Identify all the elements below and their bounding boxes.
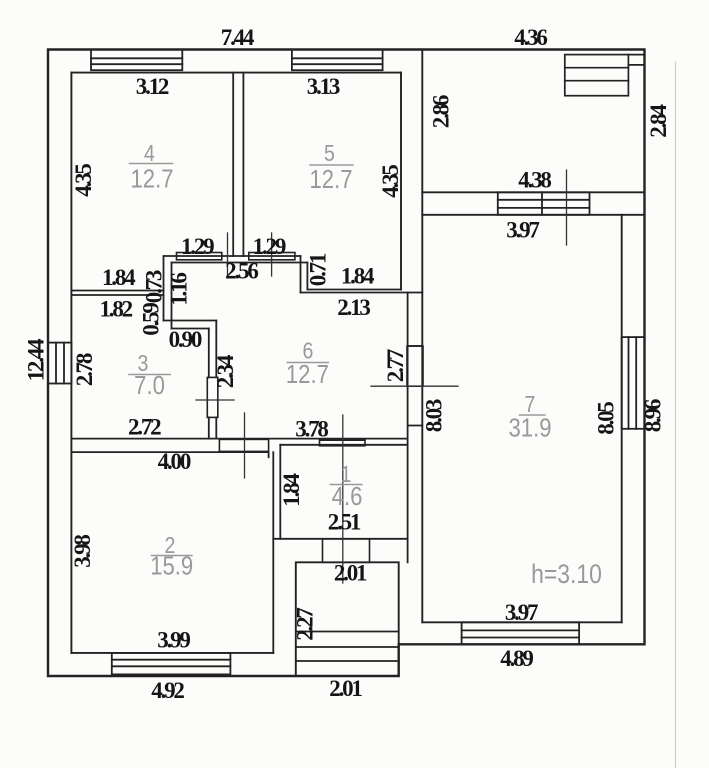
svg-text:0.73: 0.73 xyxy=(141,270,166,303)
svg-text:0.71: 0.71 xyxy=(306,253,331,286)
room 7 right wall inner face xyxy=(621,215,623,623)
window W6 on right wall (room 7) xyxy=(622,337,645,429)
svg-text:4.38: 4.38 xyxy=(518,168,551,193)
partition wall between rooms 2 and 1 xyxy=(273,445,280,653)
window W1 on top wall (room 4) xyxy=(91,50,182,71)
tick for 4.00 door room 2 xyxy=(244,413,246,478)
tick for 1.29 right xyxy=(271,233,273,276)
svg-text:2.34: 2.34 xyxy=(213,354,238,388)
step wall left of hall top wall (0.73) xyxy=(164,256,172,329)
inner face of left exterior wall xyxy=(70,73,72,653)
room 5 number and area 12.7 xyxy=(310,141,353,195)
room 1 top partition inner face xyxy=(280,444,407,446)
svg-text:h=3.10: h=3.10 xyxy=(531,559,602,589)
svg-text:2.01: 2.01 xyxy=(334,561,367,586)
svg-text:4.89: 4.89 xyxy=(500,646,533,671)
hall (room 6) top wall xyxy=(165,256,308,263)
room 7 number and area 31.9 xyxy=(509,392,552,443)
svg-text:12.7: 12.7 xyxy=(131,165,174,194)
svg-text:2.78: 2.78 xyxy=(72,353,97,386)
svg-text:4.6: 4.6 xyxy=(332,482,363,511)
svg-text:4: 4 xyxy=(144,141,155,167)
svg-text:2.72: 2.72 xyxy=(128,415,161,440)
room 6 number and area 12.7 xyxy=(286,338,329,389)
svg-text:3.98: 3.98 xyxy=(70,535,95,568)
svg-text:1.16: 1.16 xyxy=(167,273,192,306)
room 1 bottom exterior wall top face xyxy=(273,538,407,540)
svg-text:4.36: 4.36 xyxy=(514,25,547,50)
window W3 on left wall (room 3) xyxy=(48,343,71,384)
svg-text:3.99: 3.99 xyxy=(157,628,190,653)
terrace bottom wall outer face xyxy=(422,191,644,193)
step wall 0.71 right of hall top wall xyxy=(301,256,308,293)
svg-text:2.01: 2.01 xyxy=(329,676,362,701)
svg-text:7.0: 7.0 xyxy=(134,371,165,400)
svg-text:4.00: 4.00 xyxy=(158,449,191,474)
svg-text:3.97: 3.97 xyxy=(505,600,538,625)
dimension tick lines xyxy=(196,170,567,583)
scan edge artifact right side xyxy=(675,62,677,768)
svg-text:3.78: 3.78 xyxy=(295,417,328,442)
svg-text:2.84: 2.84 xyxy=(646,104,671,138)
door D5 from hall to room 2 xyxy=(219,439,268,451)
room 3 number and area 7.0 xyxy=(129,351,170,401)
tick for 2.34 door room 3 xyxy=(196,399,234,401)
svg-text:12.7: 12.7 xyxy=(310,165,353,194)
vestibule walls xyxy=(296,562,399,676)
svg-text:15.9: 15.9 xyxy=(150,552,193,581)
svg-text:1.29: 1.29 xyxy=(181,234,214,259)
svg-text:2.77: 2.77 xyxy=(383,349,408,382)
tick for 2.51 / 2.01 doors xyxy=(342,415,344,583)
svg-text:2.27: 2.27 xyxy=(293,608,318,641)
stairs on terrace (top-right) xyxy=(565,55,645,96)
svg-text:2.51: 2.51 xyxy=(328,510,361,535)
outer wall boundary of house xyxy=(48,50,645,677)
svg-text:3.97: 3.97 xyxy=(506,218,539,243)
tick for 2.77 / 8.03 door xyxy=(371,385,458,387)
svg-text:2.86: 2.86 xyxy=(429,95,454,128)
svg-text:8.96: 8.96 xyxy=(641,399,666,432)
wall between hall / room 1 and room 7 xyxy=(408,293,423,563)
door D6 leaf from hall to room 1 xyxy=(320,440,366,446)
terrace bottom wall inner face / room 7 top wall xyxy=(422,214,644,216)
svg-text:31.9: 31.9 xyxy=(509,414,552,443)
room 7 bottom wall inner face xyxy=(422,621,621,623)
room 5 right wall inner face xyxy=(400,73,402,290)
tick for 4.38 / 3.97 window xyxy=(566,170,568,245)
svg-text:0.90: 0.90 xyxy=(169,327,202,352)
svg-text:8.03: 8.03 xyxy=(422,399,447,432)
svg-text:2.56: 2.56 xyxy=(225,259,258,284)
svg-text:1.84: 1.84 xyxy=(341,264,375,289)
inner face of top exterior wall xyxy=(71,72,401,74)
svg-text:1.29: 1.29 xyxy=(253,234,286,259)
window W4 on bottom wall (room 2) xyxy=(112,653,231,675)
window W7 on bottom wall (room 7) xyxy=(462,622,579,644)
door D1 leaf from hall to room 4 xyxy=(177,253,222,260)
svg-text:1.84: 1.84 xyxy=(102,265,136,290)
room 1 number and area 4.6 xyxy=(330,462,362,512)
wall between room 5 and terrace / left wall of room 7 xyxy=(421,50,423,623)
room 4 number and area 12.7 xyxy=(129,141,173,194)
door D7 from room 1 to vestibule xyxy=(323,539,370,563)
inner face of bottom-left exterior wall (room 2) xyxy=(71,652,273,654)
svg-text:4.92: 4.92 xyxy=(151,678,184,703)
vestibule bottom door and steps xyxy=(296,632,399,662)
partition wall between rooms 4 and 3 xyxy=(71,291,163,296)
door D2 leaf from hall to room 5 xyxy=(249,253,295,260)
svg-text:8.05: 8.05 xyxy=(593,402,618,435)
room 5 bottom partition wall (1.84) xyxy=(301,290,423,293)
svg-text:7.44: 7.44 xyxy=(221,25,255,50)
svg-text:1.82: 1.82 xyxy=(99,297,132,322)
structural wall below rooms 3 and 6 (top line) xyxy=(71,438,407,440)
svg-text:3.13: 3.13 xyxy=(307,74,340,99)
tick for 1.29 left xyxy=(227,233,229,276)
structural wall room 2 top (bottom line) xyxy=(71,452,268,457)
door D4 leaf from hall to room 7 xyxy=(407,346,423,386)
wall between room 3 and hall xyxy=(209,321,217,439)
door D3 from hall to room 3 xyxy=(207,377,218,417)
svg-text:12.7: 12.7 xyxy=(286,360,329,389)
svg-text:3.12: 3.12 xyxy=(136,74,169,99)
hall nook bottom wall (0.90 step) xyxy=(164,321,217,329)
svg-text:1.84: 1.84 xyxy=(279,473,304,507)
svg-text:5: 5 xyxy=(324,141,335,167)
svg-text:12.44: 12.44 xyxy=(24,338,49,381)
svg-text:0.59: 0.59 xyxy=(139,303,164,336)
window W2 on top wall (room 5) xyxy=(292,50,383,71)
svg-text:2.13: 2.13 xyxy=(337,295,370,320)
window W5 between terrace and room 7 xyxy=(498,192,590,215)
partition wall between rooms 4 and 5 xyxy=(233,73,243,256)
svg-text:4.35: 4.35 xyxy=(378,165,403,198)
svg-text:4.35: 4.35 xyxy=(71,164,96,197)
room 2 number and area 15.9 xyxy=(150,533,193,581)
